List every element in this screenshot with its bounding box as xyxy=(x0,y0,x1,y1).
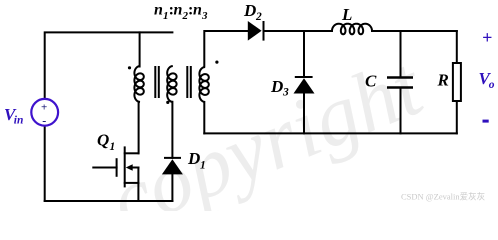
resistor R xyxy=(453,63,461,101)
wire: R top lead xyxy=(456,31,458,63)
wire: primary winding top lead xyxy=(139,32,141,66)
svg-text:Q: Q xyxy=(97,131,109,150)
wire: D1 anode to bottom rail xyxy=(171,174,173,201)
svg-text:1: 1 xyxy=(110,141,116,153)
transformer T1 primary winding n1 xyxy=(134,66,143,102)
svg-text:2: 2 xyxy=(255,11,262,23)
svg-text:n: n xyxy=(174,2,183,19)
label D3 xyxy=(270,77,289,99)
svg-text:L: L xyxy=(341,5,352,24)
transistor Q1 (MOSFET) xyxy=(93,147,138,186)
svg-text:3: 3 xyxy=(282,87,289,99)
svg-text:C: C xyxy=(365,72,377,91)
wire: bottom rail left xyxy=(45,200,173,202)
svg-text:D: D xyxy=(187,149,200,168)
svg-text:n: n xyxy=(154,2,163,19)
wire: D3 anode to bottom rail xyxy=(303,94,305,134)
wire: D3 branch top lead xyxy=(303,31,305,77)
svg-text:3: 3 xyxy=(201,10,208,22)
label Vin xyxy=(4,105,23,127)
polarity dot secondary xyxy=(215,61,218,64)
wire: Vin bottom lead xyxy=(44,126,46,201)
transformer core bars xyxy=(155,66,191,98)
svg-text:n: n xyxy=(193,2,202,19)
voltage source Vin xyxy=(31,99,58,128)
polarity dot reset winding xyxy=(166,101,169,104)
svg-text:D: D xyxy=(270,77,283,96)
svg-text:in: in xyxy=(14,115,24,127)
svg-text:+: + xyxy=(41,102,47,114)
wire: C bottom lead xyxy=(400,88,402,134)
wire: D2 cathode to L xyxy=(264,30,333,32)
wire: Q1 source to bottom rail xyxy=(137,183,139,201)
wire: drain lead (primary bottom to Q1 drain) xyxy=(138,102,140,154)
svg-text:D: D xyxy=(243,1,256,20)
wire: C top lead xyxy=(400,31,402,78)
label D2 xyxy=(243,1,262,23)
label Vo xyxy=(479,69,495,91)
svg-text:-: - xyxy=(42,114,46,128)
svg-text:CSDN @Zevalin爱灰灰: CSDN @Zevalin爱灰灰 xyxy=(401,192,485,202)
svg-text:copyright: copyright xyxy=(97,39,436,211)
transformer T1 secondary winding n3 xyxy=(199,67,208,102)
svg-text:1: 1 xyxy=(200,160,206,172)
label n1:n2:n3 xyxy=(154,2,208,23)
inductor L xyxy=(332,24,372,35)
svg-text:o: o xyxy=(489,79,495,91)
svg-text:R: R xyxy=(437,71,449,90)
label Q1 xyxy=(97,131,115,153)
svg-text:+: + xyxy=(482,28,492,48)
Q1 arrow xyxy=(126,164,133,170)
diode D3 xyxy=(294,77,315,94)
watermark copyright xyxy=(97,39,436,240)
wire: output bottom rail xyxy=(204,132,456,134)
wire: L to R top corner xyxy=(372,30,457,32)
label D1 xyxy=(187,149,206,172)
diode D1 xyxy=(162,158,183,175)
capacitor C xyxy=(387,78,413,88)
polarity dot primary xyxy=(128,66,131,69)
wire: top rail left (Vin+ to reset winding) xyxy=(45,32,173,98)
diode D2 xyxy=(248,21,264,41)
wire: secondary bottom lead xyxy=(203,102,205,133)
wire: R bottom lead xyxy=(456,101,458,133)
transformer T1 reset winding n2 xyxy=(167,66,176,102)
wire: secondary top lead to D2 anode xyxy=(204,31,248,67)
wire: reset winding bottom lead to D1 xyxy=(171,102,173,158)
output - mark xyxy=(483,120,489,123)
